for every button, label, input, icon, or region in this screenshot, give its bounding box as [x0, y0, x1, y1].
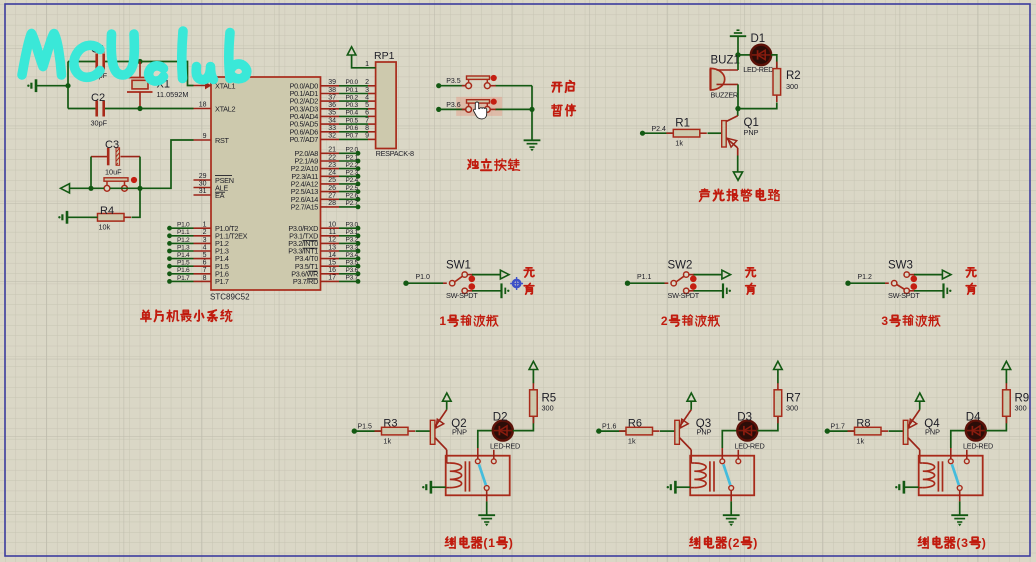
label: relay 1 — [445, 537, 455, 548]
wire relay NC stub — [966, 450, 968, 459]
arrow right (no-bottle) — [942, 270, 951, 279]
switch SW3 SW-SPDT — [892, 281, 897, 286]
pin 26 P2.5 net stub — [321, 191, 340, 193]
svg-text:P3.4: P3.4 — [346, 252, 359, 259]
wire gnd to caps — [36, 85, 68, 87]
svg-text:): ) — [753, 536, 757, 550]
node reset right — [137, 186, 142, 191]
svg-text:): ) — [509, 536, 513, 550]
label: you (have) — [966, 283, 976, 294]
svg-text:P2.4: P2.4 — [346, 177, 359, 184]
label: relay 3 — [918, 537, 928, 548]
wire bottom throw to cell — [689, 290, 695, 292]
power arrow (Q2 emitter) — [443, 393, 452, 401]
node P3.6 — [436, 107, 441, 112]
svg-text:29: 29 — [199, 173, 207, 180]
svg-text:13: 13 — [328, 244, 336, 251]
wire input to switch — [406, 282, 443, 284]
svg-text:RESPACK-8: RESPACK-8 — [376, 149, 414, 158]
power arrow (Q4 emitter) — [916, 393, 925, 401]
svg-text:18: 18 — [199, 102, 207, 109]
wire vertical C1-C2 — [67, 62, 69, 109]
svg-text:11: 11 — [329, 229, 336, 236]
pin 9 RST — [194, 139, 212, 141]
svg-text:P1.0: P1.0 — [416, 274, 431, 281]
svg-text:P1.6: P1.6 — [177, 267, 190, 274]
svg-text:P2.0: P2.0 — [346, 147, 359, 154]
svg-text:P1.5: P1.5 — [177, 260, 190, 267]
label: you (have) — [524, 283, 534, 294]
svg-text:P2.7: P2.7 — [346, 200, 359, 207]
ground (top of alarm, inverted) — [730, 35, 746, 37]
resistor R3 1k — [375, 430, 382, 432]
svg-text:300: 300 — [542, 404, 554, 413]
svg-text:2: 2 — [733, 536, 740, 550]
svg-text:RP1: RP1 — [374, 50, 395, 62]
label: zanting (pause) — [552, 104, 562, 115]
svg-text:RST: RST — [215, 136, 230, 145]
svg-text:P1.7: P1.7 — [831, 424, 846, 431]
push button P3.6 — [456, 97, 502, 116]
svg-text:D1: D1 — [751, 33, 766, 45]
svg-text:P3.5: P3.5 — [346, 260, 359, 267]
label: you (have) — [746, 283, 756, 294]
wire relay NO to D3 — [721, 448, 723, 459]
ground arrow (alarm) — [733, 172, 742, 180]
IC U1 STC89C52 MCU body — [211, 77, 321, 290]
ground (R4) — [66, 211, 69, 224]
node C2 right junction — [137, 106, 142, 111]
capacitor C1 30pF — [68, 61, 96, 63]
wire Q3 collector to relay — [690, 450, 692, 463]
relay lever (cyan) — [952, 464, 959, 485]
svg-text:P3.5: P3.5 — [446, 78, 461, 85]
ground (buttons) — [524, 139, 541, 141]
svg-text:36: 36 — [328, 102, 336, 109]
node SW1 input — [403, 281, 408, 286]
node junction caps — [65, 83, 70, 88]
node below buzzer — [735, 106, 740, 111]
MCUclub watermark logo — [22, 31, 247, 81]
switch SW1 SW-SPDT — [450, 281, 455, 286]
ground (coil) — [903, 481, 906, 494]
pin 22 P2.1 net stub — [321, 160, 340, 162]
push button P3.5 — [439, 85, 466, 87]
pin 5 P1.4 — [194, 258, 212, 260]
svg-text:22: 22 — [328, 154, 336, 161]
wire R2 down to node — [738, 103, 777, 109]
resistor R7 300 — [777, 383, 779, 390]
arrow right (no-bottle) — [722, 270, 731, 279]
wire reset to RST pin — [140, 140, 194, 188]
pin 17 P3.7 net stub — [321, 280, 340, 282]
svg-text:SW-SPDT: SW-SPDT — [668, 291, 700, 300]
wire input to switch — [848, 282, 885, 284]
svg-text:SW-SPDT: SW-SPDT — [446, 291, 478, 300]
pin 37 P0.2 wire to RP1 — [321, 100, 340, 102]
svg-text:P1.0: P1.0 — [177, 222, 190, 229]
LED D2 LED-RED — [493, 421, 513, 441]
resistor R2 300 — [776, 62, 778, 69]
pin 19 XTAL1 — [194, 85, 212, 87]
svg-text:R2: R2 — [786, 70, 801, 82]
label: sound-light alarm circuit — [699, 189, 709, 201]
svg-text:27: 27 — [328, 193, 336, 200]
svg-text:P3.0: P3.0 — [346, 222, 359, 229]
pin 12 P3.2 net stub — [321, 242, 340, 244]
wire D2 to R5 — [513, 416, 534, 430]
wire C3 right down — [139, 157, 141, 189]
label: wu (none) — [966, 268, 976, 277]
svg-text:PNP: PNP — [697, 428, 712, 437]
reset button — [104, 185, 110, 191]
svg-text:P0.7: P0.7 — [346, 133, 359, 140]
hand cursor — [473, 102, 486, 119]
node P1.7 input — [825, 428, 830, 433]
pin 33 P0.6 wire to RP1 — [321, 131, 340, 133]
wire buzzer bottom pin — [717, 83, 739, 85]
transistor Q1 PNP — [722, 121, 727, 147]
svg-text:P2.2: P2.2 — [346, 162, 359, 169]
svg-text:SW2: SW2 — [668, 260, 693, 272]
svg-text:5: 5 — [365, 102, 369, 109]
svg-text:P2.5: P2.5 — [346, 185, 359, 192]
wire R3 to Q2 base — [416, 430, 431, 432]
resistor R9 300 — [1005, 383, 1007, 390]
svg-text:16: 16 — [328, 267, 336, 274]
wire C3 left down — [90, 157, 92, 189]
svg-text:P2.7/A15: P2.7/A15 — [291, 203, 319, 212]
svg-text:LED-RED: LED-RED — [743, 65, 773, 74]
svg-text:24: 24 — [328, 170, 336, 177]
pin 39 P0.0 wire to RP1 — [321, 85, 340, 87]
wire bottom throw to cell — [909, 290, 915, 292]
svg-text:STC89C52: STC89C52 — [210, 293, 250, 302]
pin 38 P0.1 wire to RP1 — [321, 93, 340, 95]
wire buzzer top pin — [717, 69, 739, 71]
svg-text:P1.2: P1.2 — [177, 237, 190, 244]
svg-text:P1.2: P1.2 — [858, 274, 873, 281]
svg-text:4: 4 — [203, 244, 207, 251]
svg-text:10k: 10k — [99, 223, 111, 232]
svg-text:P3.7: P3.7 — [346, 275, 359, 282]
svg-text:3: 3 — [365, 87, 369, 94]
svg-text:9: 9 — [203, 133, 207, 140]
pin 3 P1.2 — [194, 242, 212, 244]
pin 28 P2.7 net stub — [321, 206, 340, 208]
node SW3 input — [845, 281, 850, 286]
wire top throw to arrow — [467, 274, 473, 276]
svg-text:P1.1: P1.1 — [637, 274, 652, 281]
svg-text:D2: D2 — [493, 412, 508, 424]
svg-text:30pF: 30pF — [91, 119, 108, 128]
label: independent keys — [468, 159, 479, 168]
switch SW2 SW-SPDT — [671, 281, 676, 286]
capacitor C2 30pF — [68, 108, 96, 110]
svg-text:9: 9 — [365, 133, 369, 140]
svg-text:15: 15 — [328, 260, 336, 267]
power arrow (Q3 emitter) — [687, 393, 696, 401]
pin 1 P1.0 — [194, 227, 212, 229]
pin 29 PSEN — [194, 179, 212, 181]
svg-text:D4: D4 — [966, 412, 981, 424]
resistor R8 1k — [848, 430, 855, 432]
svg-text:R1: R1 — [675, 118, 690, 130]
svg-text:17: 17 — [328, 275, 336, 282]
svg-text:R6: R6 — [628, 417, 642, 429]
svg-text:8: 8 — [365, 125, 369, 132]
cursor marker — [510, 277, 523, 290]
svg-text:2: 2 — [661, 314, 668, 328]
svg-text:4: 4 — [365, 94, 369, 101]
arrow left (reset) — [61, 184, 70, 193]
svg-text:P2.6: P2.6 — [346, 193, 359, 200]
resistor R5 300 — [532, 383, 534, 390]
label: kaiqi (start) — [552, 83, 562, 92]
svg-text:D3: D3 — [737, 412, 752, 424]
label: wu (none) — [524, 268, 534, 277]
svg-text:1: 1 — [203, 222, 207, 229]
svg-text:P0.2: P0.2 — [346, 94, 359, 101]
node button junction — [529, 107, 534, 112]
svg-text:R3: R3 — [383, 417, 397, 429]
svg-text:XTAL2: XTAL2 — [215, 104, 236, 113]
ground (crystal caps) — [35, 79, 38, 92]
svg-text:P1.4: P1.4 — [177, 252, 190, 259]
wire Q4 collector to relay — [919, 450, 921, 463]
svg-text:XTAL1: XTAL1 — [215, 81, 236, 90]
svg-text:5: 5 — [203, 252, 207, 259]
svg-text:300: 300 — [786, 82, 798, 91]
svg-text:6: 6 — [365, 110, 369, 117]
svg-text:LED-RED: LED-RED — [735, 441, 765, 450]
wire input to R8 — [827, 430, 854, 432]
pin 35 P0.4 wire to RP1 — [321, 115, 340, 117]
pin 25 P2.4 net stub — [321, 183, 340, 185]
svg-text:P3.3: P3.3 — [346, 244, 359, 251]
label: MCU minimal system — [141, 310, 151, 321]
wire Q1 emitter down — [737, 148, 739, 156]
svg-text:2: 2 — [365, 79, 369, 86]
wire R8 to Q4 base — [889, 430, 904, 432]
power arrow (R7) — [774, 361, 783, 369]
node D1 left — [735, 52, 740, 57]
LED D1 LED-RED — [738, 54, 751, 56]
svg-text:P0.4: P0.4 — [346, 110, 359, 117]
LED D3 LED-RED — [737, 421, 757, 441]
svg-text:1k: 1k — [628, 437, 636, 446]
ground (relay common) — [951, 514, 968, 516]
svg-text:31: 31 — [199, 188, 207, 195]
svg-text:P0.6: P0.6 — [346, 125, 359, 132]
wire gnd to D1 node — [737, 36, 739, 55]
svg-text:6: 6 — [203, 260, 207, 267]
pin 32 P0.7 wire to RP1 — [321, 138, 340, 140]
pin 23 P2.2 net stub — [321, 168, 340, 170]
pin 2 P1.1 — [194, 235, 212, 237]
battery cell symbol — [942, 283, 944, 298]
node P1.6 input — [596, 428, 601, 433]
svg-text:BUZ1: BUZ1 — [711, 55, 740, 67]
wire relay common to gnd — [959, 490, 961, 501]
svg-text:P3.1: P3.1 — [346, 229, 359, 236]
LED D4 LED-RED — [966, 421, 986, 441]
svg-text:3: 3 — [203, 237, 207, 244]
svg-text:10uF: 10uF — [105, 168, 122, 177]
battery cell symbol — [722, 283, 724, 298]
svg-text:P2.3: P2.3 — [346, 170, 359, 177]
wire relay NO to D4 — [950, 448, 952, 459]
svg-text:LED-RED: LED-RED — [490, 441, 520, 450]
wire relay common to gnd — [486, 490, 488, 501]
node P3.5 — [436, 83, 441, 88]
svg-text:11.0592M: 11.0592M — [157, 90, 189, 99]
svg-text:25: 25 — [328, 177, 336, 184]
svg-text:39: 39 — [328, 79, 336, 86]
relay lever (cyan) — [479, 464, 486, 485]
svg-text:P0.1: P0.1 — [346, 87, 359, 94]
pin 11 P3.1 net stub — [321, 235, 340, 237]
node reset left — [88, 186, 93, 191]
svg-text:SW-SPDT: SW-SPDT — [888, 291, 920, 300]
transistor Q4 PNP — [903, 420, 908, 444]
pin 36 P0.3 wire to RP1 — [321, 108, 340, 110]
svg-text:P1.1: P1.1 — [177, 229, 190, 236]
svg-text:PNP: PNP — [744, 128, 759, 137]
transistor Q3 PNP — [675, 420, 680, 444]
wire relay NO to D2 — [477, 448, 479, 459]
relay lever (cyan) — [723, 464, 730, 485]
svg-text:1: 1 — [439, 314, 446, 328]
svg-text:1k: 1k — [383, 437, 391, 446]
power arrow (R9) — [1002, 361, 1011, 369]
relay RL1 — [446, 456, 510, 496]
svg-text:1: 1 — [365, 61, 369, 68]
resistor R1 1k — [640, 131, 645, 136]
svg-text:P0.3: P0.3 — [346, 102, 359, 109]
svg-text:38: 38 — [328, 87, 336, 94]
relay RL2 — [690, 456, 754, 496]
svg-text:P3.6: P3.6 — [446, 102, 461, 109]
arrow right (no-bottle) — [500, 270, 509, 279]
svg-text:P2.4: P2.4 — [652, 126, 667, 133]
wire input to R3 — [354, 430, 381, 432]
svg-text:SW3: SW3 — [888, 260, 913, 272]
wire input to R6 — [599, 430, 626, 432]
resistor R6 1k — [619, 430, 626, 432]
svg-text:33: 33 — [328, 125, 336, 132]
svg-text:26: 26 — [328, 185, 336, 192]
node SW2 input — [625, 281, 630, 286]
power arrow for RP1 pin 1 — [347, 47, 356, 55]
wire D1 to R2 — [771, 55, 777, 69]
wire top throw to arrow — [909, 274, 915, 276]
wire Q2 collector to relay — [446, 450, 448, 463]
wire RP1 pin1 — [352, 55, 376, 68]
pin 16 P3.6 net stub — [321, 273, 340, 275]
wire bottom throw to cell — [467, 290, 473, 292]
label: wu (none) — [746, 268, 756, 277]
svg-text:23: 23 — [328, 162, 336, 169]
svg-text:P0.7/AD7: P0.7/AD7 — [290, 135, 319, 144]
svg-text:P0.0: P0.0 — [346, 79, 359, 86]
svg-text:SW1: SW1 — [446, 260, 471, 272]
pin 14 P3.4 net stub — [321, 258, 340, 260]
svg-text:32: 32 — [328, 133, 336, 140]
pin 27 P2.6 net stub — [321, 198, 340, 200]
svg-text:14: 14 — [328, 252, 336, 259]
ground (relay common) — [478, 514, 495, 516]
wire relay NC stub — [737, 450, 739, 459]
pin 21 P2.0 net stub — [321, 152, 340, 154]
svg-text:PNP: PNP — [452, 428, 467, 437]
svg-text:): ) — [982, 536, 986, 550]
svg-text:P3.2: P3.2 — [346, 237, 359, 244]
svg-text:300: 300 — [786, 404, 798, 413]
wire R4 to reset node — [132, 188, 141, 217]
pin 6 P1.5 — [194, 265, 212, 267]
svg-text:P1.5: P1.5 — [358, 424, 373, 431]
svg-text:7: 7 — [203, 267, 207, 274]
svg-text:P1.3: P1.3 — [177, 244, 190, 251]
wire R6 to Q3 base — [660, 430, 675, 432]
wire input to switch — [628, 282, 665, 284]
svg-text:2: 2 — [203, 229, 207, 236]
svg-text:28: 28 — [328, 200, 336, 207]
svg-text:R4: R4 — [100, 205, 114, 217]
svg-text:LED-RED: LED-RED — [963, 441, 993, 450]
svg-text:P3.6: P3.6 — [346, 267, 359, 274]
battery cell symbol — [500, 283, 502, 298]
ground (relay common) — [723, 514, 740, 516]
svg-text:1k: 1k — [675, 139, 683, 148]
svg-text:C2: C2 — [91, 92, 105, 104]
wire R1 to Q1 base — [708, 132, 722, 134]
pin 7 P1.6 — [194, 273, 212, 275]
svg-text:300: 300 — [1015, 404, 1027, 413]
pin 10 P3.0 net stub — [321, 227, 340, 229]
wire C2 to XTAL2 — [140, 108, 194, 110]
pin 18 XTAL2 — [194, 108, 212, 110]
svg-text:10: 10 — [328, 222, 336, 229]
pin 30 ALE — [194, 187, 212, 189]
svg-text:BUZZER: BUZZER — [711, 90, 738, 99]
crystal X1 11.0592M — [139, 62, 141, 78]
svg-text:3: 3 — [961, 536, 968, 550]
svg-text:3: 3 — [881, 314, 888, 328]
wire top throw to arrow — [689, 274, 695, 276]
svg-text:P0.5: P0.5 — [346, 117, 359, 124]
wire D3 to R7 — [757, 416, 778, 430]
svg-text:30: 30 — [199, 181, 207, 188]
wire relay NC stub — [493, 450, 495, 459]
pin 8 P1.7 — [194, 280, 212, 282]
node P1.5 input — [352, 428, 357, 433]
svg-text:R8: R8 — [856, 417, 870, 429]
resistor pack RP1 — [376, 62, 397, 149]
svg-text:7: 7 — [365, 117, 369, 124]
pin 15 P3.5 net stub — [321, 265, 340, 267]
svg-text:37: 37 — [328, 94, 336, 101]
wire C1 to XTAL1 — [140, 62, 194, 86]
svg-text:C3: C3 — [105, 139, 119, 151]
capacitor C3 10uF — [91, 156, 107, 158]
relay RL3 — [919, 456, 983, 496]
pin 24 P2.3 net stub — [321, 175, 340, 177]
svg-text:P1.7: P1.7 — [177, 275, 190, 282]
svg-text:35: 35 — [328, 110, 336, 117]
pin 34 P0.5 wire to RP1 — [321, 123, 340, 125]
